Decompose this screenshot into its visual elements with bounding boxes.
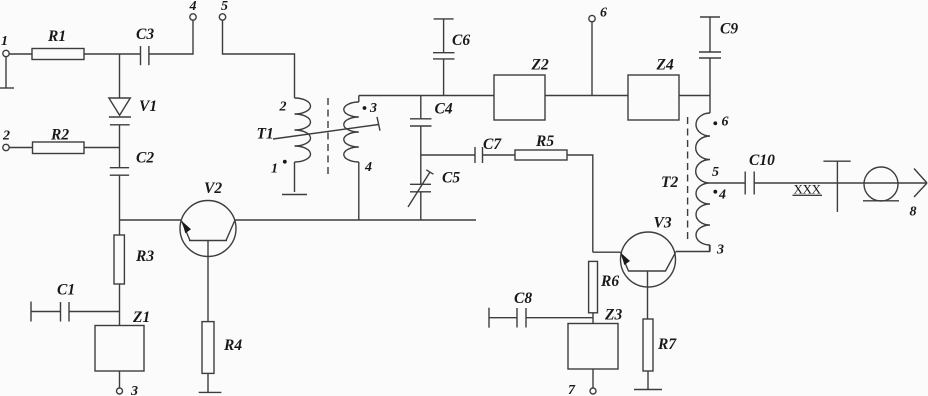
svg-text:R6: R6 — [600, 273, 619, 290]
output wire — [754, 182, 926, 184]
capacitor C5 variable — [408, 155, 460, 220]
ground bar below T1 left winding — [282, 194, 307, 196]
svg-text:Z3: Z3 — [604, 307, 622, 324]
svg-text:C7: C7 — [483, 136, 502, 153]
capacitor C4 — [410, 96, 453, 156]
wire terminal 5 to T1 left winding — [223, 20, 295, 98]
terminal 5 — [219, 0, 228, 20]
wire R1 to C3 with node at x=119.5 — [84, 53, 141, 55]
capacitor C6 — [433, 19, 470, 96]
wire R3 to Z1 with C1 node — [119, 284, 121, 326]
svg-text:C4: C4 — [435, 100, 453, 117]
svg-text:V2: V2 — [204, 180, 222, 197]
wire R6 to Z3 with C8 node — [592, 313, 594, 324]
long emitter bus wire — [235, 219, 476, 221]
svg-text:1: 1 — [271, 161, 278, 176]
ground stub below terminal 1 — [0, 57, 14, 88]
capacitor C9 — [699, 17, 738, 58]
terminal 2 — [2, 129, 10, 151]
T1 adjustment arrow — [273, 117, 380, 139]
wire C7 to R5 — [483, 154, 516, 156]
wire node to V2 emitter — [120, 219, 182, 221]
wire C3 to terminal 4 — [149, 20, 193, 54]
svg-text:T2: T2 — [661, 174, 678, 191]
svg-text:C2: C2 — [136, 149, 154, 166]
block Z3 — [568, 307, 622, 370]
wire V1 to C2 — [119, 125, 121, 168]
block Z4 — [628, 57, 679, 121]
T1 pin label 3 with dot — [363, 101, 377, 116]
wire C2 down to emitter node and R3 — [119, 175, 121, 235]
transformer T1 left winding — [257, 98, 311, 192]
terminal 4 — [189, 0, 197, 20]
svg-text:T1: T1 — [257, 126, 274, 143]
svg-text:8: 8 — [910, 205, 917, 220]
capacitor C2 — [110, 149, 155, 175]
svg-text:1: 1 — [1, 34, 8, 49]
svg-text:C5: C5 — [442, 170, 460, 187]
resistor R1 — [32, 28, 84, 60]
ground below R4 — [199, 373, 222, 392]
resistor R3 — [114, 235, 154, 284]
svg-text:Z1: Z1 — [132, 309, 150, 326]
svg-text:R7: R7 — [657, 336, 677, 353]
block Z1 — [95, 309, 150, 371]
wire T2 tap to C10 — [710, 182, 745, 184]
T2 pin label 4 with dot — [713, 188, 726, 203]
transformer T1 right winding — [344, 96, 359, 221]
antenna tee — [823, 161, 850, 212]
wire R2 to rail — [84, 147, 120, 149]
svg-text:6: 6 — [722, 115, 729, 130]
svg-text:C8: C8 — [514, 290, 532, 307]
svg-text:3: 3 — [716, 243, 724, 258]
capacitor C1 — [31, 282, 75, 322]
T2 pin label 6 with dot — [713, 115, 728, 130]
capacitor C3 — [136, 26, 154, 65]
wire C9 down to T2 winding — [709, 58, 711, 113]
svg-text:Z4: Z4 — [656, 57, 674, 74]
output arrow to node 8 — [910, 169, 928, 220]
block Z2 — [494, 57, 549, 121]
transistor V3 — [621, 215, 676, 320]
main bus wire y=95.5 — [359, 95, 494, 97]
wire node to V3 emitter — [593, 251, 621, 253]
svg-text:C3: C3 — [136, 26, 154, 43]
svg-text:C1: C1 — [57, 282, 75, 299]
svg-text:4: 4 — [189, 0, 197, 14]
svg-text:V1: V1 — [139, 98, 157, 115]
svg-text:R2: R2 — [50, 127, 69, 144]
terminal 6 — [589, 6, 607, 96]
resistor R2 — [33, 127, 85, 154]
wire Z2 to Z4 — [545, 95, 628, 97]
svg-text:C9: C9 — [720, 21, 738, 38]
svg-text:7: 7 — [568, 383, 576, 396]
wire terminal2 to R2 — [9, 147, 32, 149]
svg-text:2: 2 — [279, 100, 287, 115]
svg-text:C6: C6 — [452, 32, 470, 49]
svg-text:R1: R1 — [47, 28, 66, 45]
wire C1 to rail — [69, 311, 120, 313]
wire Z4 to T2 — [679, 95, 710, 97]
wire V3 collector to T2 bottom — [676, 245, 710, 252]
T1 pin label 1 with dot — [271, 160, 287, 177]
svg-text:R4: R4 — [223, 337, 242, 354]
transformer T2 winding — [661, 113, 710, 252]
output circle — [863, 167, 899, 201]
terminal 3 — [117, 371, 139, 396]
wire C4 node to C7 — [421, 154, 475, 156]
svg-text:4: 4 — [718, 188, 726, 203]
svg-text:V3: V3 — [654, 215, 672, 232]
wire terminal1 to R1 — [9, 53, 32, 55]
T2 core dashed line — [687, 117, 689, 243]
capacitor C8 — [489, 290, 532, 328]
resistor R5 — [515, 133, 567, 160]
svg-text:5: 5 — [712, 165, 719, 180]
ground below R7 — [634, 371, 662, 390]
varactor diode V1 — [109, 54, 157, 125]
svg-text:3: 3 — [130, 384, 138, 396]
svg-text:5: 5 — [221, 0, 228, 14]
svg-text:3: 3 — [369, 101, 377, 116]
capacitor C7 — [475, 136, 502, 163]
capacitor C10 — [745, 152, 775, 195]
transistor V2 — [180, 180, 236, 322]
resistor R6 — [589, 261, 620, 312]
terminal 1 — [1, 34, 9, 57]
wire R5 down to V3 emitter node — [567, 155, 593, 252]
resistor R7 — [643, 319, 677, 371]
resistor R4 — [202, 322, 242, 374]
svg-text:R5: R5 — [535, 133, 554, 150]
svg-text:R3: R3 — [135, 248, 154, 265]
terminal 7 — [568, 369, 596, 396]
svg-text:2: 2 — [2, 129, 10, 144]
svg-text:4: 4 — [364, 160, 372, 175]
T1 core dashed line — [327, 98, 329, 174]
attenuator XXX — [793, 182, 823, 197]
wire C8 to rail — [526, 317, 593, 319]
svg-text:XXX: XXX — [794, 182, 822, 197]
svg-text:C10: C10 — [749, 152, 775, 169]
svg-text:6: 6 — [600, 6, 607, 21]
svg-text:Z2: Z2 — [531, 57, 549, 74]
